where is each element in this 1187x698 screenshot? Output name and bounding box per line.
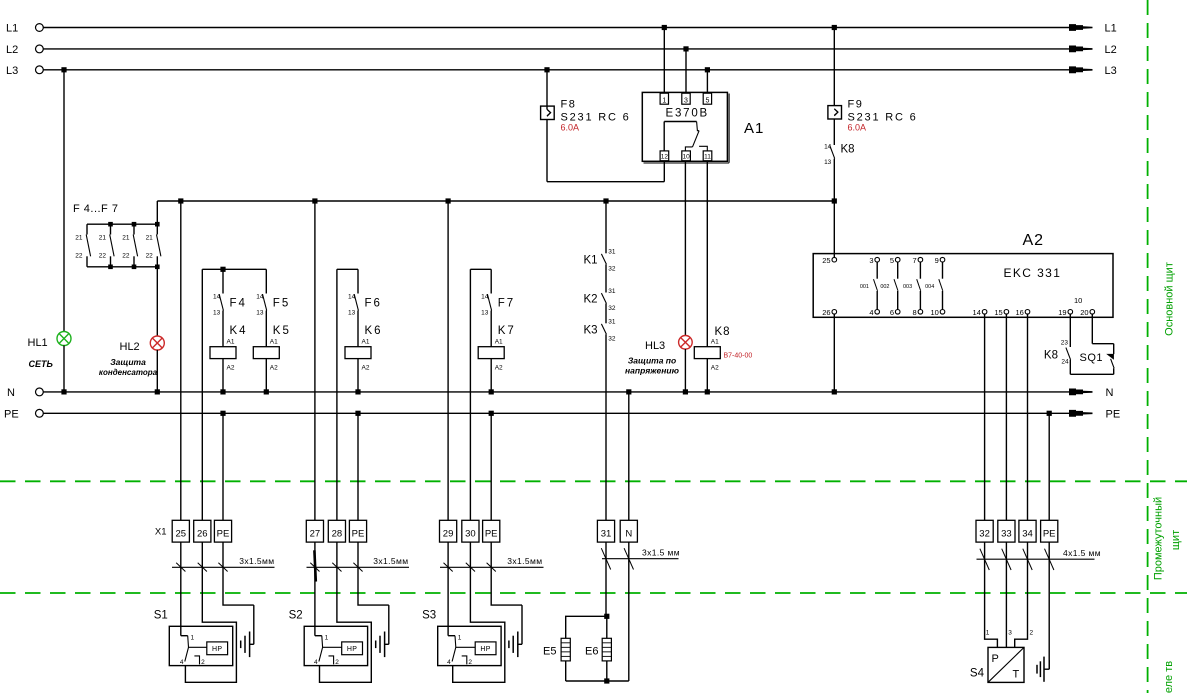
svg-text:A2: A2 bbox=[495, 365, 503, 372]
wire K8 contact to bus bbox=[833, 159, 835, 201]
svg-text:1: 1 bbox=[191, 635, 195, 642]
A2 terminal 20 bbox=[1090, 310, 1095, 315]
svg-text:12: 12 bbox=[661, 154, 669, 161]
junction A2-26 at N bbox=[832, 389, 837, 394]
A2 terminal 8 bbox=[918, 310, 923, 315]
wire F8 down bbox=[546, 120, 548, 182]
A2 terminal 26 bbox=[832, 310, 837, 315]
svg-text:A1: A1 bbox=[362, 339, 370, 346]
svg-text:СЕТЬ: СЕТЬ bbox=[29, 359, 54, 369]
wire terminal 33 to S4 pin3 bbox=[1005, 542, 1007, 647]
svg-text:S2: S2 bbox=[289, 610, 303, 622]
wire K6-bus to terminal 28 bbox=[336, 269, 338, 520]
wire A2-20 to SQ1 horizontal bbox=[1092, 343, 1113, 345]
svg-text:K8: K8 bbox=[715, 326, 731, 338]
svg-text:L3: L3 bbox=[1105, 65, 1117, 77]
A2 internal relay contact 003 bbox=[919, 262, 921, 279]
svg-text:29: 29 bbox=[443, 529, 454, 540]
wire A2-16 to terminal 34 bbox=[1027, 314, 1029, 520]
junction PE to S4 ground bbox=[1047, 411, 1052, 416]
svg-text:3x1.5мм: 3x1.5мм bbox=[373, 556, 408, 566]
wire K3 to terminal 31 bbox=[605, 334, 607, 520]
svg-text:21: 21 bbox=[99, 235, 107, 242]
zone boundary horizontal dashed line (upper) bbox=[0, 480, 1187, 482]
S3 HP element bbox=[456, 646, 476, 648]
svg-text:X1: X1 bbox=[155, 527, 167, 538]
svg-text:1: 1 bbox=[325, 635, 329, 642]
wire PE to terminal PE (group1) bbox=[222, 413, 224, 520]
svg-text:26: 26 bbox=[197, 529, 208, 540]
A2 terminal 15 bbox=[1004, 310, 1009, 315]
svg-text:K8: K8 bbox=[841, 144, 855, 156]
wire bus corner down to F4...F7 bbox=[156, 201, 158, 224]
junction HL2 at N bbox=[155, 389, 160, 394]
svg-text:6.0A: 6.0A bbox=[848, 123, 867, 133]
S3 contact blade bbox=[452, 636, 456, 662]
svg-text:F4: F4 bbox=[230, 298, 247, 310]
NC contact F6 (21-22) bbox=[133, 224, 135, 234]
svg-text:19: 19 bbox=[1058, 308, 1066, 317]
NC contact F4 (21-22) bbox=[86, 224, 88, 234]
svg-text:002: 002 bbox=[880, 284, 889, 290]
junction L3 to F8 branch bbox=[544, 67, 549, 72]
A2 terminal 25 bbox=[832, 257, 837, 262]
svg-text:13: 13 bbox=[824, 159, 832, 166]
svg-text:23: 23 bbox=[1061, 340, 1069, 347]
wire bottom K8 to SQ1 bbox=[1070, 373, 1113, 375]
junction L1 to F9 branch bbox=[832, 25, 837, 30]
svg-text:21: 21 bbox=[146, 235, 154, 242]
wire terminal to S2 pin1 bbox=[314, 542, 316, 636]
terminal X1:33 at x=1006.4 bbox=[998, 520, 1015, 542]
terminal X1:29 at x=448.1 bbox=[440, 520, 457, 542]
ground symbol at S3 bbox=[521, 605, 523, 644]
svg-text:1: 1 bbox=[986, 630, 990, 637]
svg-text:13: 13 bbox=[256, 310, 264, 317]
svg-text:F8: F8 bbox=[561, 99, 577, 111]
junction bus to K1K2K3 chain bbox=[603, 198, 608, 203]
zone boundary vertical dashed line (right) bbox=[1147, 0, 1149, 693]
svg-text:E5: E5 bbox=[543, 646, 556, 658]
svg-text:PE: PE bbox=[1106, 408, 1121, 420]
svg-text:HL3: HL3 bbox=[645, 340, 665, 352]
terminal X1:34 at x=1027.5 bbox=[1019, 520, 1036, 542]
svg-text:14: 14 bbox=[973, 308, 981, 317]
svg-text:20: 20 bbox=[1080, 308, 1088, 317]
wire bottom bus to terminal N bbox=[628, 542, 630, 681]
svg-text:2: 2 bbox=[335, 659, 339, 666]
A1 pin 11 bbox=[703, 151, 712, 161]
pressure switch S2 box bbox=[304, 626, 367, 665]
svg-text:25: 25 bbox=[176, 529, 187, 540]
auxiliary contact F7 (13-14) bbox=[490, 269, 492, 293]
cable 3x1.5mm (group3) bbox=[440, 566, 544, 568]
pressure transducer S4 box bbox=[988, 647, 1024, 682]
wire L1 to F9 bbox=[833, 28, 835, 106]
junction F4F7 top 3 bbox=[155, 222, 160, 227]
junction bus to wire 25 bbox=[178, 198, 183, 203]
wire A1 pin11 to K8 coil bbox=[706, 161, 708, 347]
svg-text:E6: E6 bbox=[585, 646, 598, 658]
svg-text:PE: PE bbox=[352, 529, 365, 540]
A2 terminal 5 bbox=[895, 257, 900, 262]
cable 4x1.5 mm (group5) bbox=[977, 558, 1095, 560]
cable 3x1.5 mm (group4) bbox=[602, 558, 679, 560]
bottom bus E5/E6 bbox=[566, 680, 629, 682]
wire HL3 to N bbox=[684, 349, 686, 392]
junction F4F7 top 1 bbox=[108, 222, 113, 227]
wire F9 down bbox=[833, 119, 835, 145]
wire PE to S1 ground bbox=[223, 542, 254, 605]
svg-text:A1: A1 bbox=[711, 339, 719, 346]
svg-text:3: 3 bbox=[869, 256, 873, 265]
A2 terminal 7 bbox=[918, 257, 923, 262]
junction K4 branch bbox=[220, 267, 225, 272]
svg-text:1: 1 bbox=[662, 98, 666, 105]
junction F4F7 top 2 bbox=[132, 222, 137, 227]
cable 3x1.5mm (group2) bbox=[307, 566, 410, 568]
wire PE to terminal PE (group3) bbox=[490, 413, 492, 520]
wire E5 top branch bbox=[566, 616, 607, 638]
wire E6 bottom bbox=[606, 661, 608, 681]
wire K1 to K2 bbox=[605, 264, 607, 292]
wire K8 coil to N bbox=[706, 359, 708, 392]
S2 contact blade bbox=[319, 636, 323, 662]
wire A2 terminal 26 to N bbox=[833, 314, 835, 392]
svg-text:F 4...F 7: F 4...F 7 bbox=[73, 203, 118, 215]
svg-text:4x1.5 мм: 4x1.5 мм bbox=[1063, 548, 1101, 558]
svg-text:Промежуточный: Промежуточный bbox=[1152, 497, 1164, 580]
svg-text:3x1.5мм: 3x1.5мм bbox=[507, 556, 542, 566]
svg-text:10: 10 bbox=[682, 154, 690, 161]
svg-text:щит: щит bbox=[1170, 530, 1182, 550]
wire PE to terminal PE (group5) bbox=[1048, 413, 1050, 520]
svg-text:14: 14 bbox=[348, 294, 356, 301]
wire bus to A2 terminal 25 bbox=[833, 201, 835, 257]
svg-text:22: 22 bbox=[146, 253, 154, 260]
terminal X1:28 at x=336.9 bbox=[328, 520, 345, 542]
svg-text:F5: F5 bbox=[273, 298, 290, 310]
svg-text:13: 13 bbox=[481, 310, 489, 317]
junction PE to S2 ground wire bbox=[355, 411, 360, 416]
svg-text:8: 8 bbox=[913, 308, 917, 317]
arrow L2 right bbox=[1069, 46, 1093, 53]
wire K8-24 down bbox=[1069, 360, 1071, 375]
K7 feed bus bbox=[470, 268, 491, 270]
NC contact F7 (21-22) bbox=[156, 224, 158, 234]
terminal X1:PE at x=223 bbox=[214, 520, 231, 542]
wire terminal 34 to S4 pin2 bbox=[1015, 542, 1028, 647]
svg-text:A2: A2 bbox=[1023, 232, 1045, 249]
svg-text:25: 25 bbox=[822, 256, 830, 265]
arrow L1 right bbox=[1069, 24, 1093, 31]
A2 terminal 6 bbox=[895, 310, 900, 315]
svg-text:L2: L2 bbox=[1105, 44, 1117, 56]
junction K4 at N bbox=[220, 389, 225, 394]
wire A2-20 down bbox=[1091, 314, 1093, 344]
pressure switch S3 box bbox=[438, 626, 501, 665]
svg-text:004: 004 bbox=[925, 284, 934, 290]
rail L1 bbox=[43, 27, 1069, 29]
S1 HP element bbox=[188, 646, 207, 648]
ground symbol at S1 bbox=[253, 605, 255, 644]
wire N rail to terminal N bbox=[628, 392, 630, 520]
svg-text:T: T bbox=[1013, 669, 1020, 681]
junction F4F7 bottom 1 bbox=[108, 265, 113, 270]
A2 terminal 16 bbox=[1025, 310, 1030, 315]
svg-text:27: 27 bbox=[310, 529, 321, 540]
svg-text:31: 31 bbox=[608, 319, 616, 326]
svg-text:31: 31 bbox=[608, 249, 616, 256]
rail L2 bbox=[43, 48, 1069, 50]
terminal circle L3 left bbox=[36, 66, 44, 74]
svg-text:A1: A1 bbox=[270, 339, 278, 346]
svg-text:21: 21 bbox=[75, 235, 83, 242]
svg-text:A2: A2 bbox=[227, 365, 235, 372]
svg-text:32: 32 bbox=[608, 336, 616, 343]
A1 pin 3 bbox=[682, 93, 690, 104]
svg-text:F7: F7 bbox=[498, 298, 515, 310]
svg-text:конденсатора: конденсатора bbox=[99, 368, 158, 377]
S1 pin2 stub bbox=[194, 656, 199, 665]
wire terminal 31 down bbox=[605, 542, 607, 616]
wire K6 to N bbox=[357, 359, 359, 392]
A1 pin 5 bbox=[703, 93, 711, 104]
svg-text:3: 3 bbox=[684, 98, 688, 105]
ground symbol at S2 bbox=[388, 605, 390, 644]
svg-text:Защита: Защита bbox=[110, 357, 146, 367]
svg-text:14: 14 bbox=[256, 294, 264, 301]
terminal X1:27 at x=314.9 bbox=[306, 520, 323, 542]
K4/K5 feed bus bbox=[202, 268, 266, 270]
junction L3 to A1 pin5 bbox=[705, 67, 710, 72]
A2 internal relay contact 001 bbox=[876, 262, 878, 279]
svg-text:34: 34 bbox=[1022, 529, 1033, 540]
wire PE to terminal PE (group2) bbox=[357, 413, 359, 520]
A2 internal relay contact 004 bbox=[942, 262, 944, 279]
svg-text:4: 4 bbox=[314, 659, 318, 666]
terminal circle PE left bbox=[36, 409, 44, 417]
limit switch SQ1 bbox=[1113, 344, 1115, 354]
auxiliary contact F6 (13-14) bbox=[357, 269, 359, 293]
svg-text:K3: K3 bbox=[584, 324, 598, 336]
svg-text:31: 31 bbox=[608, 288, 616, 295]
wire bus to K1 bbox=[605, 201, 607, 253]
wire terminal to S1 pin4 loop bbox=[185, 542, 236, 682]
svg-text:3x1.5мм: 3x1.5мм bbox=[239, 556, 274, 566]
lamp HL3 (red) bbox=[679, 336, 693, 350]
svg-text:напряжению: напряжению bbox=[625, 366, 680, 376]
auxiliary contact F4 (13-14) bbox=[222, 269, 224, 293]
svg-text:22: 22 bbox=[99, 253, 107, 260]
svg-text:3: 3 bbox=[1008, 630, 1012, 637]
S2 HP element bbox=[322, 646, 341, 648]
rail PE bbox=[43, 412, 1069, 414]
circuit breaker F9 bbox=[828, 106, 842, 119]
svg-text:10: 10 bbox=[930, 308, 938, 317]
svg-text:S4: S4 bbox=[970, 668, 985, 680]
svg-text:4: 4 bbox=[447, 659, 451, 666]
svg-text:32: 32 bbox=[608, 266, 616, 273]
S3 pin2 stub bbox=[462, 656, 467, 665]
contact K3 (31-32) bbox=[601, 324, 606, 334]
svg-text:2: 2 bbox=[1030, 630, 1034, 637]
wire K7-bus to terminal 30 bbox=[469, 269, 471, 520]
control bus wire (y=201) bbox=[157, 200, 834, 202]
junction L2 to A1 pin3 bbox=[683, 46, 688, 51]
terminal circle L1 left bbox=[36, 24, 44, 32]
svg-text:7: 7 bbox=[913, 256, 917, 265]
svg-text:2: 2 bbox=[468, 659, 472, 666]
wire A1 pin10 to HL3 bbox=[684, 161, 686, 336]
svg-text:K2: K2 bbox=[584, 294, 598, 306]
junction K7 at N bbox=[489, 389, 494, 394]
A2 terminal 14 bbox=[982, 310, 987, 315]
wire L1 to A1 pin1 bbox=[663, 28, 665, 93]
svg-text:13: 13 bbox=[348, 310, 356, 317]
terminal X1:25 at x=180.8 bbox=[172, 520, 189, 542]
svg-text:16: 16 bbox=[1015, 308, 1023, 317]
svg-text:Защита по: Защита по bbox=[628, 356, 676, 366]
svg-text:N: N bbox=[7, 387, 15, 399]
wire up to A1 pin12 bbox=[663, 161, 665, 182]
svg-text:PE: PE bbox=[1043, 529, 1056, 540]
A1 internal changeover contact bbox=[663, 122, 665, 151]
svg-text:001: 001 bbox=[860, 284, 869, 290]
junction K8 coil at N bbox=[705, 389, 710, 394]
svg-text:HP: HP bbox=[480, 646, 490, 653]
svg-text:9: 9 bbox=[935, 256, 939, 265]
svg-text:A1: A1 bbox=[227, 339, 235, 346]
contact K1 (31-32) bbox=[601, 254, 606, 264]
wire L3 to F8 bbox=[546, 70, 548, 110]
svg-text:N: N bbox=[625, 529, 632, 540]
junction bus to wire 29 bbox=[446, 198, 451, 203]
arrow N right bbox=[1069, 389, 1093, 396]
wire bus to terminal 25 bbox=[180, 201, 182, 520]
wire E5 bottom bbox=[565, 661, 567, 681]
auxiliary contact F5 (13-14) bbox=[265, 269, 267, 293]
svg-text:K1: K1 bbox=[584, 254, 598, 266]
junction bus to wire 27 bbox=[312, 198, 317, 203]
svg-text:SQ1: SQ1 bbox=[1080, 352, 1104, 364]
svg-text:3x1.5 мм: 3x1.5 мм bbox=[642, 548, 680, 558]
auxiliary contact K8 (13-14) bbox=[830, 146, 835, 159]
wire terminal to S3 pin1 bbox=[447, 542, 449, 636]
wire bus to terminal 29 bbox=[447, 201, 449, 520]
svg-text:A2: A2 bbox=[711, 365, 719, 372]
lamp HL1 (green) bbox=[57, 332, 71, 346]
svg-text:26: 26 bbox=[822, 308, 830, 317]
wire A2-15 to terminal 33 bbox=[1005, 314, 1007, 520]
junction E6 bottom bbox=[604, 678, 609, 683]
A2 terminal 3 bbox=[875, 257, 880, 262]
A1 pin 1 bbox=[660, 93, 668, 104]
svg-text:A2: A2 bbox=[270, 365, 278, 372]
svg-text:14: 14 bbox=[824, 144, 832, 151]
terminal X1:N at x=628.8 bbox=[620, 520, 637, 542]
svg-text:Реле тв: Реле тв bbox=[1163, 661, 1175, 693]
heater E6 bbox=[606, 616, 608, 638]
junction K8 at bus bbox=[832, 198, 837, 203]
wire PE to S4 ground bbox=[1048, 542, 1050, 669]
S2 pin2 stub bbox=[329, 656, 334, 665]
svg-text:PE: PE bbox=[4, 408, 19, 420]
junction E5/E6 top bbox=[604, 614, 609, 619]
junction terminal-N wire at N rail bbox=[626, 389, 631, 394]
svg-text:30: 30 bbox=[465, 529, 476, 540]
junction PE to S3 ground wire bbox=[489, 411, 494, 416]
junction F4F7 bottom 3 bbox=[155, 265, 160, 270]
K6 feed bus bbox=[337, 268, 358, 270]
svg-text:15: 15 bbox=[994, 308, 1002, 317]
NC contact F5 (21-22) bbox=[110, 224, 112, 234]
svg-text:22: 22 bbox=[122, 253, 130, 260]
A1 pin 12 bbox=[660, 151, 669, 161]
svg-text:33: 33 bbox=[1001, 529, 1012, 540]
svg-text:1: 1 bbox=[458, 635, 462, 642]
svg-text:13: 13 bbox=[213, 310, 221, 317]
junction K6 at N bbox=[355, 389, 360, 394]
svg-text:32: 32 bbox=[608, 305, 616, 312]
svg-text:HL1: HL1 bbox=[28, 337, 48, 349]
svg-text:L2: L2 bbox=[6, 44, 18, 56]
wire L2 to A1 pin3 bbox=[685, 49, 687, 93]
terminal X1:PE at x=358 bbox=[349, 520, 366, 542]
circuit breaker F8 bbox=[541, 106, 555, 119]
svg-text:A1: A1 bbox=[495, 339, 503, 346]
pressure switch S1 box bbox=[169, 626, 232, 665]
terminal X1:PE at x=491.2 bbox=[483, 520, 500, 542]
svg-text:A1: A1 bbox=[744, 120, 764, 137]
A2 terminal 9 bbox=[940, 257, 945, 262]
terminal X1:PE at x=1049.2 bbox=[1041, 520, 1058, 542]
F4...F7 top bus bbox=[87, 223, 157, 225]
wire K4 to N bbox=[222, 359, 224, 392]
arrow PE right bbox=[1069, 410, 1093, 417]
svg-text:22: 22 bbox=[75, 253, 83, 260]
wire terminal to S1 pin1 bbox=[180, 542, 182, 636]
svg-text:003: 003 bbox=[903, 284, 912, 290]
svg-text:F6: F6 bbox=[365, 298, 382, 310]
svg-text:A2: A2 bbox=[362, 365, 370, 372]
svg-text:HP: HP bbox=[212, 646, 222, 653]
svg-text:L3: L3 bbox=[6, 65, 18, 77]
svg-text:5: 5 bbox=[890, 256, 894, 265]
svg-text:S1: S1 bbox=[154, 610, 168, 622]
wire terminal to S3 pin4 loop bbox=[453, 542, 505, 682]
svg-text:P: P bbox=[992, 653, 999, 665]
terminal X1:31 at x=606 bbox=[597, 520, 614, 542]
svg-text:L1: L1 bbox=[6, 23, 18, 35]
svg-text:4: 4 bbox=[180, 659, 184, 666]
svg-text:S3: S3 bbox=[422, 610, 436, 622]
svg-text:11: 11 bbox=[704, 154, 711, 161]
svg-text:10: 10 bbox=[1074, 296, 1082, 305]
junction L3 to HL1 branch bbox=[61, 67, 66, 72]
wire K4K5-bus to terminal 26 bbox=[201, 269, 203, 520]
monitoring relay A1 box (E370B) bbox=[642, 92, 727, 161]
junction PE to S1 ground wire bbox=[220, 411, 225, 416]
svg-text:K6: K6 bbox=[365, 325, 383, 337]
svg-text:HP: HP bbox=[347, 646, 357, 653]
svg-text:6.0A: 6.0A bbox=[561, 123, 580, 133]
A2 terminal 19 bbox=[1068, 310, 1073, 315]
svg-text:PE: PE bbox=[485, 529, 498, 540]
junction HL1 at N bbox=[61, 389, 66, 394]
wire F4F7 to HL2 bbox=[156, 267, 158, 336]
svg-text:4: 4 bbox=[869, 308, 873, 317]
